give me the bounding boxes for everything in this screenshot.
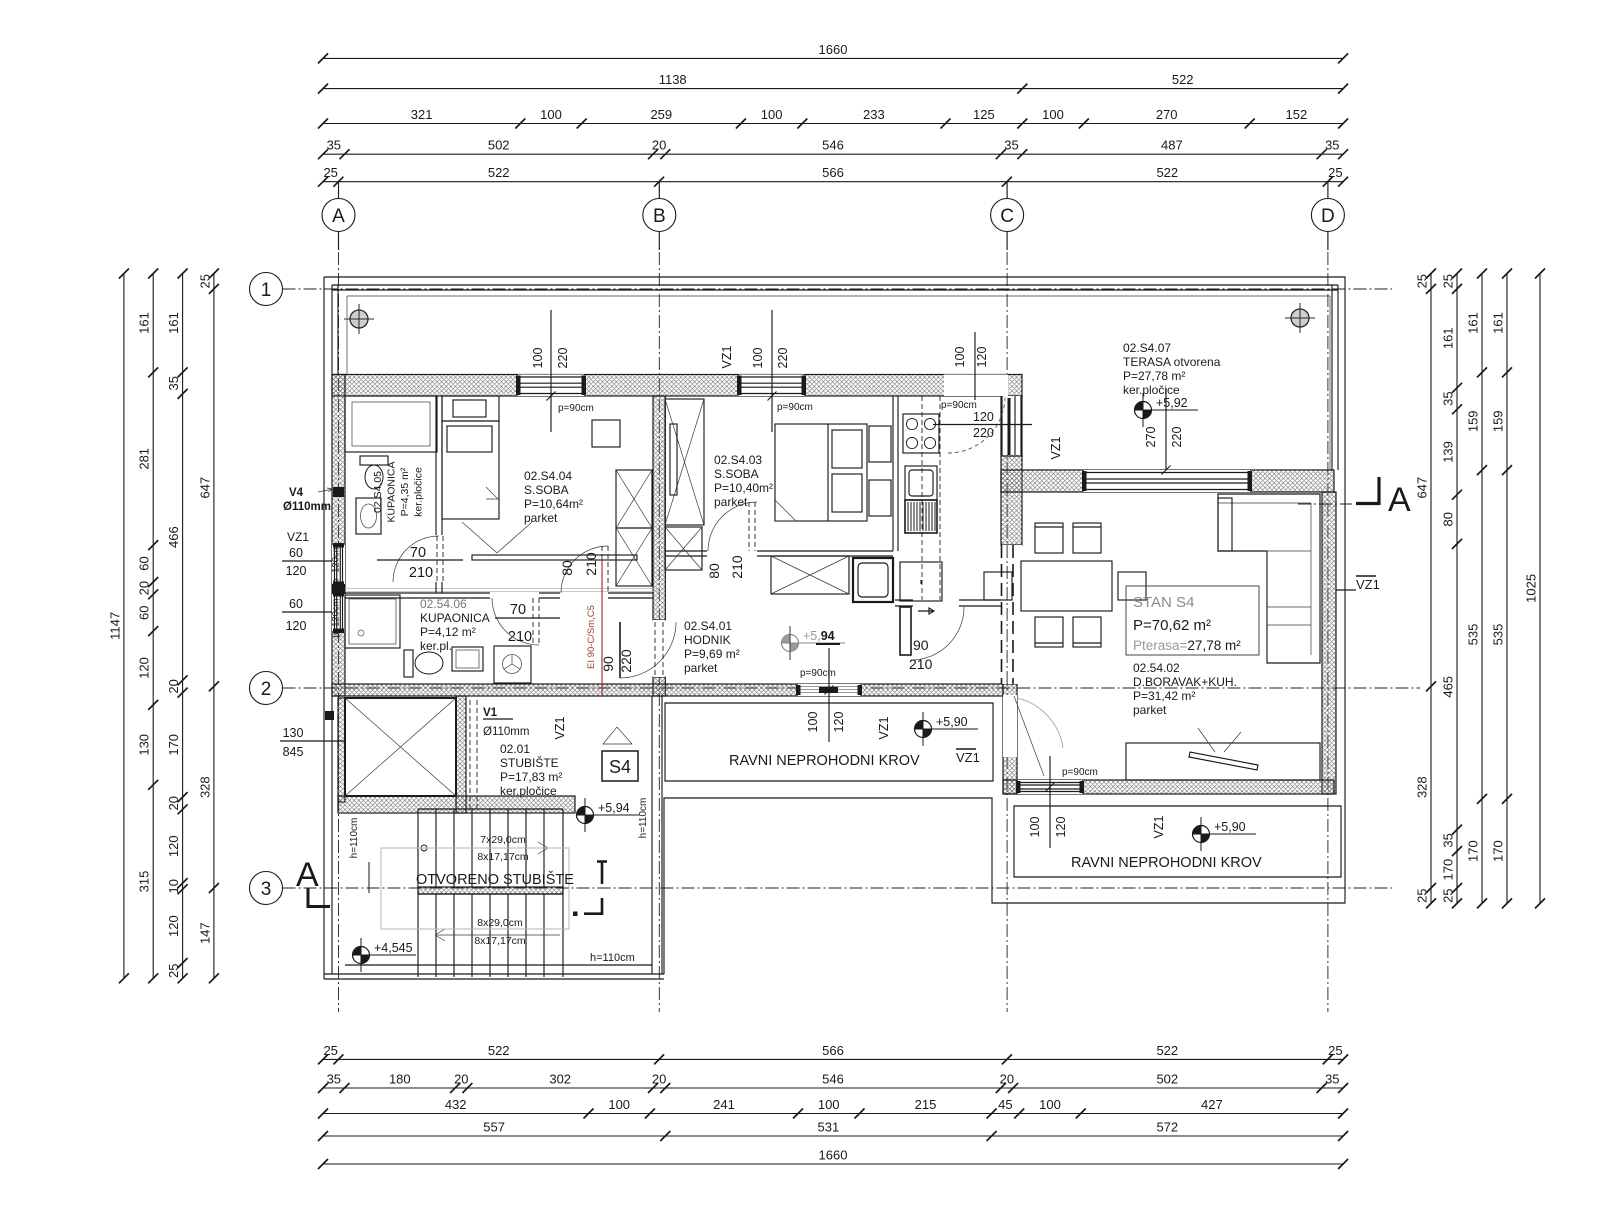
svg-text:KUPAONICA: KUPAONICA — [386, 461, 398, 522]
window S.SOBA03 100/220 — [741, 377, 802, 394]
svg-text:522: 522 — [1156, 165, 1178, 180]
svg-text:161: 161 — [1441, 327, 1456, 349]
svg-text:02.54.06: 02.54.06 — [420, 597, 467, 611]
svg-text:STAN S4: STAN S4 — [1133, 594, 1194, 611]
svg-text:p=90cm: p=90cm — [558, 403, 594, 414]
svg-text:522: 522 — [488, 165, 510, 180]
dim chain top row5 — [318, 165, 1348, 187]
bath05 tub — [345, 396, 437, 452]
wall: living south — [1003, 780, 1334, 794]
svg-text:120: 120 — [832, 712, 846, 733]
svg-text:+5,94: +5,94 — [803, 629, 835, 643]
svg-text:25: 25 — [1415, 274, 1430, 288]
wardrobe soba03 — [665, 399, 704, 525]
dining table — [1021, 561, 1112, 611]
terrace door 120/220 — [948, 396, 1005, 453]
svg-text:3: 3 — [261, 879, 272, 900]
kitchen door 90/210 — [900, 607, 911, 655]
svg-text:35: 35 — [327, 138, 341, 153]
svg-text:35: 35 — [1325, 138, 1339, 153]
window terrace 270/220 — [1086, 473, 1248, 490]
svg-text:+5,92: +5,92 — [1156, 396, 1188, 410]
kitchen sink — [905, 466, 937, 500]
svg-text:130: 130 — [283, 726, 304, 740]
svg-text:Ø110mm: Ø110mm — [483, 726, 529, 738]
svg-text:VZ1: VZ1 — [1152, 815, 1166, 838]
svg-text:VZ1: VZ1 — [1049, 436, 1063, 459]
shelf soba03 — [670, 424, 677, 495]
hob — [903, 414, 939, 453]
svg-text:120: 120 — [166, 835, 181, 857]
level marker +5,94 hodnik (gray overlay) — [782, 626, 846, 660]
west wall small mark — [325, 711, 334, 720]
stair room dashed boundary — [470, 700, 477, 810]
wall: terrace south / living north — [1001, 470, 1334, 492]
kitchen grate — [905, 500, 937, 533]
svg-text:EI 90-C/Sm,C5: EI 90-C/Sm,C5 — [586, 605, 597, 669]
svg-text:647: 647 — [197, 477, 212, 499]
window living south 100/120 — [1020, 783, 1080, 792]
svg-text:A: A — [332, 206, 345, 227]
level marker +5,90 — [915, 712, 979, 746]
dim chain left col3 — [166, 269, 188, 984]
svg-text:152: 152 — [1286, 107, 1308, 122]
west wall pier between windows — [332, 584, 345, 594]
svg-text:215: 215 — [915, 1097, 937, 1112]
V4 duct mark — [333, 487, 344, 497]
svg-text:535: 535 — [1491, 624, 1506, 646]
fire rating line (red) — [601, 558, 603, 697]
svg-text:220: 220 — [618, 649, 634, 673]
svg-text:70: 70 — [510, 602, 526, 618]
grid axis circles 1 2 3 — [250, 273, 1393, 306]
svg-text:25: 25 — [197, 274, 212, 288]
shelf soba04 — [472, 555, 637, 560]
S4 marker — [602, 751, 638, 781]
svg-text:100: 100 — [1028, 817, 1042, 838]
svg-text:p=90cm: p=90cm — [941, 400, 977, 411]
svg-text:100: 100 — [531, 348, 545, 369]
terrace floor inner line — [347, 296, 1330, 470]
svg-text:120: 120 — [166, 915, 181, 937]
svg-text:25: 25 — [1328, 1043, 1342, 1058]
svg-text:1660: 1660 — [819, 1148, 848, 1163]
svg-text:100: 100 — [806, 712, 820, 733]
svg-text:p=90cm: p=90cm — [777, 402, 813, 413]
svg-text:OTVORENO STUBIŠTE: OTVORENO STUBIŠTE — [416, 871, 574, 888]
svg-text:130: 130 — [137, 734, 152, 756]
svg-text:p=120cm: p=120cm — [331, 544, 342, 583]
svg-text:546: 546 — [822, 138, 844, 153]
level marker +5,92 — [1135, 393, 1199, 427]
svg-text:259: 259 — [650, 107, 672, 122]
svg-text:502: 502 — [1156, 1072, 1178, 1087]
wall: stair landing hatch strip — [418, 887, 563, 894]
svg-text:V4: V4 — [289, 487, 304, 499]
svg-text:100: 100 — [1039, 1097, 1061, 1112]
dim chain bottom row1 — [318, 1043, 1348, 1065]
wall: top exterior A-C — [332, 375, 1022, 397]
svg-text:120: 120 — [973, 410, 994, 424]
fridge — [900, 562, 942, 601]
svg-text:1147: 1147 — [107, 612, 122, 640]
svg-text:P=70,62 m²: P=70,62 m² — [1133, 617, 1211, 634]
svg-text:RAVNI NEPROHODNI KROV: RAVNI NEPROHODNI KROV — [729, 753, 920, 769]
svg-text:159: 159 — [1491, 410, 1506, 432]
svg-text:80: 80 — [706, 563, 722, 579]
svg-text:1025: 1025 — [1524, 574, 1539, 603]
svg-text:Ø110mm: Ø110mm — [283, 501, 331, 513]
svg-text:8x17,17cm: 8x17,17cm — [474, 935, 526, 947]
svg-text:220: 220 — [1170, 427, 1184, 448]
svg-text:60: 60 — [289, 597, 303, 611]
svg-text:100: 100 — [761, 107, 783, 122]
svg-text:80: 80 — [1441, 512, 1456, 526]
svg-text:161: 161 — [137, 312, 152, 334]
svg-text:20: 20 — [166, 679, 181, 693]
dim chain top row4 — [318, 138, 1348, 160]
wall C opening dashes — [1002, 545, 1014, 684]
stair lower flight — [418, 894, 563, 977]
dim chain left col4 — [197, 269, 219, 984]
bath06 toilet — [404, 650, 413, 677]
svg-text:+5,94: +5,94 — [598, 801, 630, 815]
nightstands soba03 — [869, 426, 891, 462]
grid axis circles A B C D — [322, 182, 355, 1012]
svg-text:161: 161 — [166, 312, 181, 334]
svg-text:220: 220 — [776, 348, 790, 369]
stair block west/bottom/east double lines — [324, 696, 664, 979]
svg-text:100: 100 — [1042, 107, 1064, 122]
svg-text:VZ1: VZ1 — [956, 750, 980, 765]
dim chain top row3 — [318, 107, 1348, 129]
door soba04 80/210 — [561, 546, 608, 593]
svg-text:C: C — [1000, 206, 1014, 227]
bath06 washing machine — [494, 646, 531, 683]
svg-text:522: 522 — [488, 1043, 510, 1058]
svg-text:25: 25 — [1441, 888, 1456, 902]
svg-text:P=4,35 m²: P=4,35 m² — [399, 467, 411, 516]
svg-text:25: 25 — [1328, 165, 1342, 180]
svg-text:25: 25 — [323, 165, 337, 180]
svg-text:35: 35 — [1441, 391, 1456, 405]
svg-text:180: 180 — [389, 1072, 411, 1087]
bed soba04 — [442, 421, 499, 519]
bath05 sink — [356, 498, 381, 534]
partition kitchen south — [895, 600, 1001, 606]
svg-text:20: 20 — [454, 1072, 468, 1087]
dim chain left 1147 — [107, 269, 128, 984]
headboard cabinet soba04 — [442, 396, 499, 421]
svg-text:7x29,0cm: 7x29,0cm — [480, 834, 526, 846]
svg-text:100: 100 — [608, 1097, 630, 1112]
svg-text:80: 80 — [559, 560, 575, 576]
svg-text:60: 60 — [137, 556, 152, 570]
svg-text:35: 35 — [166, 376, 181, 390]
svg-text:120: 120 — [975, 347, 989, 368]
svg-text:125: 125 — [973, 107, 995, 122]
svg-text:647: 647 — [1415, 477, 1430, 499]
terrace door jamb white-out — [1002, 396, 1022, 455]
level marker +5,90 — [1193, 817, 1257, 851]
svg-text:302: 302 — [549, 1072, 571, 1087]
window bath06 west 60/120 — [335, 596, 343, 629]
svg-text:25: 25 — [323, 1043, 337, 1058]
svg-text:535: 535 — [1466, 624, 1481, 646]
door soba03 80/210 — [708, 502, 757, 551]
living room roof door p=90 — [1014, 696, 1044, 776]
svg-text:02.S4.05: 02.S4.05 — [372, 471, 384, 513]
bath05 toilet — [360, 456, 388, 465]
svg-text:170: 170 — [1441, 859, 1456, 881]
svg-text:S4: S4 — [609, 757, 631, 777]
sofa L-shape — [1218, 494, 1320, 663]
svg-text:466: 466 — [166, 526, 181, 548]
svg-text:100: 100 — [953, 347, 967, 368]
svg-text:1138: 1138 — [659, 72, 687, 87]
svg-text:20: 20 — [1000, 1072, 1014, 1087]
dim chain right 1025 — [1524, 269, 1546, 909]
middle roof slab outline — [665, 703, 993, 781]
svg-text:p=90cm: p=90cm — [1062, 767, 1098, 778]
stair upper flight — [418, 809, 563, 977]
openings in walls — [518, 375, 584, 397]
svg-text:70: 70 — [410, 545, 426, 561]
kitchen counter living — [1126, 743, 1320, 780]
STAN S4 box — [1126, 586, 1259, 655]
svg-text:1: 1 — [261, 280, 272, 301]
svg-text:V1: V1 — [483, 707, 498, 719]
svg-text:328: 328 — [1415, 776, 1430, 798]
svg-text:25: 25 — [1415, 888, 1430, 902]
floor mark soba04 — [462, 522, 532, 553]
svg-text:270: 270 — [1156, 107, 1178, 122]
svg-text:VZ1: VZ1 — [553, 716, 567, 739]
svg-text:161: 161 — [1491, 312, 1506, 334]
wall: C interior — [1001, 396, 1022, 545]
elevator shaft — [345, 698, 456, 796]
wall: elevator east — [456, 696, 466, 813]
svg-text:8x17,17cm: 8x17,17cm — [477, 851, 529, 863]
svg-text:120: 120 — [286, 564, 307, 578]
svg-text:ker.pločice: ker.pločice — [413, 467, 425, 517]
bath06 shower — [345, 595, 400, 648]
svg-text:522: 522 — [1172, 72, 1194, 87]
partition bath05/soba04 — [436, 396, 442, 593]
svg-text:+4,545: +4,545 — [374, 941, 413, 955]
gray overlay lines bath06 — [345, 589, 660, 592]
svg-text:VZ1: VZ1 — [877, 716, 891, 739]
svg-text:566: 566 — [822, 165, 844, 180]
svg-text:VZ1: VZ1 — [287, 530, 309, 544]
wall: elevator west — [338, 698, 345, 802]
dim chain bottom row3 — [318, 1097, 1348, 1119]
right roof slab outline — [1014, 806, 1341, 877]
svg-text:139: 139 — [1441, 441, 1456, 463]
wall B opening dashes — [655, 622, 663, 677]
level marker +5,94 — [577, 798, 641, 832]
window bath05 west 60/120 — [335, 547, 343, 582]
svg-text:h=110cm: h=110cm — [590, 952, 635, 964]
svg-text:25: 25 — [166, 963, 181, 977]
svg-text:VZ1: VZ1 — [720, 345, 734, 368]
svg-text:35: 35 — [1325, 1072, 1339, 1087]
apartment entry door 90/220 — [619, 622, 621, 678]
svg-text:845: 845 — [283, 745, 304, 759]
kitchen counter dashed — [922, 396, 940, 600]
door bath06 70/210 — [492, 598, 539, 645]
wardrobe soba04 — [616, 470, 652, 528]
section bracket near stairs — [597, 861, 607, 884]
svg-text:120: 120 — [1054, 817, 1068, 838]
svg-text:161: 161 — [1466, 312, 1481, 334]
svg-text:210: 210 — [409, 565, 433, 581]
svg-text:210: 210 — [729, 555, 745, 579]
stair void overhead (gray) — [381, 848, 569, 929]
bath06 sink — [452, 647, 483, 671]
svg-text:281: 281 — [137, 448, 152, 470]
svg-text:220: 220 — [556, 348, 570, 369]
svg-text:20: 20 — [652, 138, 666, 153]
dim chain top 1660 — [318, 42, 1348, 64]
svg-text:20: 20 — [137, 581, 152, 595]
window hodnik south 100/120 (gray overlay style) — [800, 687, 858, 693]
svg-text:20: 20 — [652, 1072, 666, 1087]
svg-text:A: A — [1388, 481, 1411, 519]
svg-text:p=90cm: p=90cm — [800, 668, 836, 679]
dim chain right col1 — [1441, 269, 1463, 909]
svg-text:+5,90: +5,90 — [1214, 820, 1246, 834]
svg-text:10: 10 — [166, 879, 181, 893]
wall: B interior — [653, 396, 665, 620]
svg-text:315: 315 — [137, 871, 152, 893]
wall: east exterior — [1322, 492, 1336, 794]
svg-text:100: 100 — [818, 1097, 840, 1112]
svg-text:25: 25 — [1441, 274, 1456, 288]
level marker +4,545 — [353, 938, 417, 972]
stair walk lines with arrows — [421, 845, 427, 851]
svg-text:170: 170 — [166, 734, 181, 756]
svg-text:170: 170 — [1466, 840, 1481, 862]
dim chain bottom 1660 — [318, 1148, 1348, 1170]
svg-text:321: 321 — [411, 107, 433, 122]
window S.SOBA04 100/220 — [520, 377, 582, 394]
svg-text:100: 100 — [751, 348, 765, 369]
svg-text:1660: 1660 — [819, 42, 848, 57]
dim chain left col2 — [137, 269, 159, 984]
bed soba03 — [775, 424, 867, 521]
svg-text:465: 465 — [1441, 676, 1456, 698]
partition soba03 south — [665, 551, 893, 556]
svg-text:328: 328 — [197, 776, 212, 798]
svg-text:572: 572 — [1156, 1120, 1178, 1135]
dim chain top 1138/522 — [318, 72, 1348, 94]
terrace parapet double lines top — [332, 285, 1338, 470]
svg-text:233: 233 — [863, 107, 885, 122]
wall: west exterior — [332, 375, 345, 697]
svg-text:557: 557 — [483, 1120, 505, 1135]
door bath05 70/210 — [393, 536, 439, 582]
svg-text:241: 241 — [713, 1097, 735, 1112]
svg-text:120: 120 — [286, 619, 307, 633]
wall: living west — [1003, 684, 1017, 794]
dim chain bottom row4 — [318, 1120, 1348, 1142]
svg-text:210: 210 — [508, 629, 532, 645]
svg-text:D: D — [1321, 206, 1335, 227]
svg-text:2: 2 — [261, 679, 272, 700]
wall: apartment south (hodnik) — [332, 684, 1003, 696]
building outer outline — [324, 277, 1345, 979]
svg-text:h=110cm: h=110cm — [638, 798, 649, 839]
svg-text:35: 35 — [1004, 138, 1018, 153]
svg-text:120: 120 — [137, 657, 152, 679]
window dim leaders — [551, 310, 1166, 848]
svg-text:432: 432 — [445, 1097, 467, 1112]
svg-text:100: 100 — [540, 107, 562, 122]
svg-text:h=110cm: h=110cm — [349, 818, 360, 859]
dim chain right col0 — [1415, 269, 1437, 909]
svg-text:502: 502 — [488, 138, 510, 153]
svg-text:B: B — [653, 206, 666, 227]
svg-text:90: 90 — [913, 637, 929, 653]
corridor closet — [771, 556, 849, 594]
svg-text:Pterasa=27,78 m²: Pterasa=27,78 m² — [1133, 638, 1241, 653]
svg-text:220: 220 — [973, 426, 994, 440]
svg-text:487: 487 — [1161, 138, 1183, 153]
survey marker — [344, 304, 374, 334]
svg-text:566: 566 — [822, 1043, 844, 1058]
svg-text:546: 546 — [822, 1072, 844, 1087]
dim chain right col2 — [1466, 269, 1488, 909]
washing machine hodnik — [853, 558, 893, 602]
svg-text:+5,90: +5,90 — [936, 715, 968, 729]
svg-text:p=120cm: p=120cm — [331, 598, 342, 637]
svg-text:427: 427 — [1201, 1097, 1223, 1112]
dim chain right col3 — [1491, 269, 1513, 909]
svg-text:531: 531 — [818, 1120, 840, 1135]
svg-text:159: 159 — [1466, 410, 1481, 432]
wall: elevator south — [338, 796, 575, 813]
svg-text:RAVNI NEPROHODNI KROV: RAVNI NEPROHODNI KROV — [1071, 855, 1262, 871]
survey marker — [1285, 303, 1315, 333]
svg-text:45: 45 — [998, 1097, 1012, 1112]
svg-text:147: 147 — [197, 922, 212, 944]
dim chain bottom row2 — [318, 1072, 1348, 1094]
svg-text:35: 35 — [1441, 833, 1456, 847]
svg-text:VZ1: VZ1 — [1356, 577, 1380, 592]
partition rooms south / bath06 north — [345, 593, 653, 598]
svg-text:522: 522 — [1156, 1043, 1178, 1058]
svg-text:8x29,0cm: 8x29,0cm — [477, 917, 523, 929]
svg-text:35: 35 — [327, 1072, 341, 1087]
section marker A right — [1356, 477, 1379, 505]
svg-text:60: 60 — [289, 546, 303, 560]
desk soba04 — [592, 420, 620, 447]
svg-text:210: 210 — [583, 552, 599, 576]
svg-text:210: 210 — [909, 656, 933, 672]
svg-text:60: 60 — [137, 605, 152, 619]
svg-text:270: 270 — [1144, 427, 1158, 448]
svg-text:20: 20 — [166, 796, 181, 810]
partition soba03/kitchen — [893, 396, 898, 551]
svg-text:170: 170 — [1491, 840, 1506, 862]
